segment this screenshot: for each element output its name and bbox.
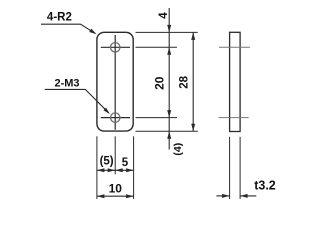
svg-text:2-M3: 2-M3 bbox=[54, 77, 79, 89]
svg-text:(5): (5) bbox=[100, 155, 114, 167]
leader for 4-R2 bbox=[41, 24, 97, 34]
svg-text:20: 20 bbox=[153, 76, 167, 90]
dimension 10 (overall width) bbox=[97, 181, 134, 198]
svg-text:28: 28 bbox=[179, 75, 191, 88]
front view plate outline bbox=[97, 32, 133, 131]
dimension 20 (hole to hole) bbox=[153, 47, 172, 117]
hole H2 horizontal centerline bbox=[101, 117, 130, 119]
extension line bottom left bbox=[96, 136, 98, 199]
side view plate outline bbox=[230, 32, 241, 131]
leader for 2-M3 bbox=[45, 89, 110, 114]
extension line hole H1 center bbox=[136, 46, 178, 48]
hole H2 (M3 bottom) bbox=[111, 113, 120, 122]
extension line top edge bbox=[136, 31, 198, 33]
extension line side right bbox=[239, 137, 241, 199]
extension line bottom edge bbox=[136, 130, 198, 132]
extension line hole H2 center bbox=[136, 117, 178, 119]
dimension t3.2 (thickness) bbox=[216, 178, 275, 198]
extension line bottom center bbox=[114, 136, 116, 174]
side view centerline hole H2 bbox=[219, 117, 249, 119]
svg-text:t3.2: t3.2 bbox=[254, 178, 276, 192]
svg-text:10: 10 bbox=[109, 181, 123, 195]
dimension 4 (top edge to hole H1) bbox=[158, 8, 171, 47]
hole H1 (M3 top) bbox=[111, 43, 120, 52]
dimension (5) and 5 row bbox=[97, 155, 134, 172]
vertical centerline through holes bbox=[114, 35, 116, 130]
extension line bottom right bbox=[133, 136, 135, 199]
extension line side left bbox=[229, 137, 231, 199]
side view centerline hole H1 bbox=[219, 46, 250, 48]
hole H1 horizontal centerline bbox=[101, 46, 130, 48]
dimension 28 (overall height) bbox=[179, 32, 196, 131]
svg-text:4-R2: 4-R2 bbox=[47, 12, 72, 24]
svg-text:(4): (4) bbox=[172, 143, 184, 156]
svg-text:4: 4 bbox=[158, 12, 170, 19]
dimension (4) (hole H2 to bottom edge) bbox=[167, 118, 184, 156]
svg-text:5: 5 bbox=[122, 157, 129, 169]
